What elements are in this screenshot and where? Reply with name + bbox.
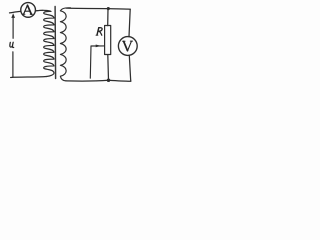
wire ammeter to primary (36, 9, 43, 12)
wire R branch lower (107, 55, 110, 81)
label V (123, 41, 133, 51)
voltage reference line upper (12, 15, 14, 38)
wire bottom left (11, 77, 47, 78)
ammeter A circle (21, 3, 36, 18)
inductor secondary winding (60, 8, 70, 81)
label u (10, 42, 14, 47)
voltmeter V circle (118, 37, 137, 56)
wire V branch upper (129, 9, 130, 37)
wire bottom right (66, 79, 131, 82)
label A (23, 5, 33, 14)
junction node top (107, 7, 110, 10)
wire V branch lower (129, 55, 131, 81)
voltage reference line lower (12, 52, 14, 78)
resistor R body (105, 26, 111, 55)
inductor primary winding (36, 10, 54, 76)
wire ammeter left lead (10, 11, 21, 13)
voltage arrowhead (11, 13, 15, 18)
transformer core (54, 7, 57, 79)
wire rheostat tap (90, 46, 104, 78)
junction node bottom (107, 79, 111, 83)
wire R branch upper (107, 9, 109, 26)
wire top right (66, 8, 130, 9)
label R (96, 28, 102, 36)
rheostat arrowhead (96, 45, 101, 48)
